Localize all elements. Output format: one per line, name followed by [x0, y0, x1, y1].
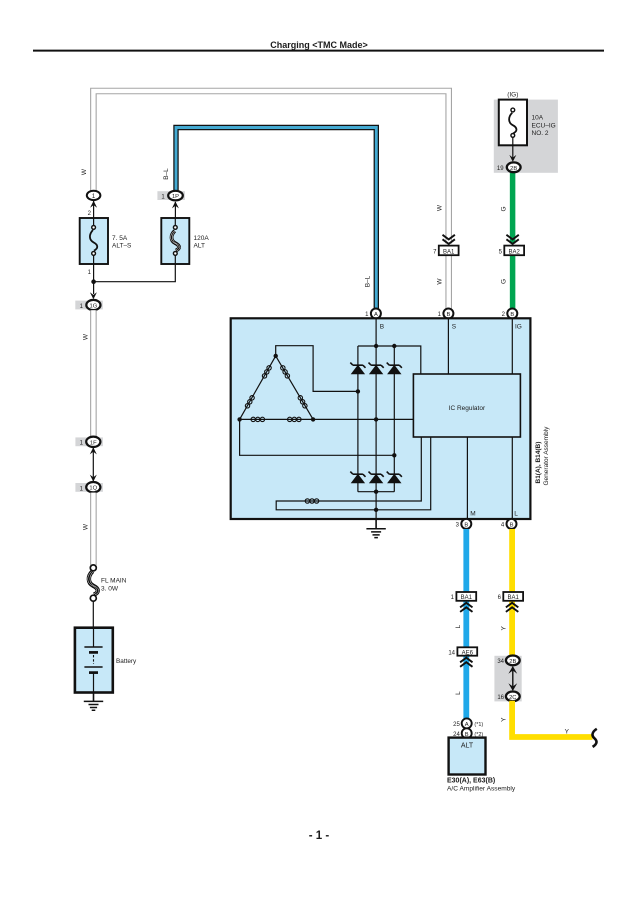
svg-text:W: W [81, 168, 88, 175]
pin circle B (2) at IG [502, 309, 518, 319]
svg-text:BA1: BA1 [508, 595, 520, 601]
wire G from BA2 to pin IG [510, 255, 516, 308]
chevrons into BA1 pin 7 [443, 235, 455, 244]
junction dots rectifier [356, 344, 397, 512]
wire S internal [447, 318, 449, 374]
wire junction to 120A fuse [94, 264, 176, 282]
rectifier left column [357, 346, 359, 492]
rotor field coil circuit [276, 437, 431, 510]
svg-text:B: B [446, 312, 450, 318]
stator coil right side [280, 365, 308, 409]
connector 2B pin 19 [497, 162, 521, 172]
wire between 1F and 1Q with arrows [90, 447, 97, 481]
svg-text:Y: Y [501, 625, 508, 630]
splice panel 2B/2C [494, 656, 521, 702]
svg-text:A: A [374, 312, 378, 318]
svg-text:2B: 2B [509, 659, 516, 665]
diode D5 [369, 472, 384, 483]
battery ground [84, 693, 103, 711]
svg-text:IG: IG [515, 323, 522, 330]
svg-text:ALT: ALT [461, 742, 474, 749]
connector 1F [75, 437, 103, 447]
wire M internal [466, 437, 468, 519]
title rule [33, 50, 604, 52]
svg-text:2B: 2B [510, 166, 517, 172]
connector BA2 pin 5 [499, 246, 524, 256]
svg-text:G: G [500, 279, 507, 284]
wire FL MAIN to battery [92, 601, 94, 647]
pin circle B (3) at M [456, 519, 472, 529]
IC regulator U1 [413, 374, 520, 437]
svg-text:16: 16 [497, 695, 504, 701]
svg-text:IC Regulator: IC Regulator [449, 405, 486, 412]
svg-text:B–L: B–L [163, 168, 170, 180]
delta vertex dots [237, 354, 315, 422]
fusible link FL MAIN 3.0W [88, 565, 99, 601]
chevrons below BA1 pin 6 [506, 603, 518, 612]
wire fuse bottom to junction [93, 264, 95, 294]
connector 1Q [75, 482, 103, 492]
rectifier top rail to IC regulator [358, 346, 421, 374]
svg-text:BA1: BA1 [443, 249, 455, 255]
svg-text:BA1: BA1 [461, 595, 473, 601]
svg-text:(*1): (*1) [474, 722, 483, 728]
chevrons below BA1 pin 1 [460, 603, 472, 612]
svg-text:34: 34 [497, 659, 504, 665]
svg-text:W: W [437, 204, 444, 211]
connector BA1 pin 6 [498, 592, 523, 601]
battery [75, 628, 113, 693]
svg-text:7. 5A: 7. 5A [112, 235, 128, 242]
wire L internal [511, 437, 513, 519]
svg-text:E30(A), E63(B): E30(A), E63(B) [447, 777, 495, 784]
svg-text:B: B [510, 522, 514, 528]
pin circle B (1) at S [438, 309, 454, 319]
connector BA1 pin 7 [433, 246, 458, 256]
svg-text:- 1 -: - 1 - [309, 830, 330, 842]
svg-text:A: A [465, 722, 469, 728]
svg-text:Charging <TMC Made>: Charging <TMC Made> [270, 40, 368, 50]
svg-text:B1(A), B14(B): B1(A), B14(B) [535, 442, 542, 484]
svg-text:(IG): (IG) [507, 91, 518, 98]
connector AE6 pin 14 [448, 647, 477, 656]
svg-text:ALT–S: ALT–S [112, 243, 132, 250]
rectifier right column [393, 346, 395, 492]
svg-text:2C: 2C [509, 695, 516, 701]
svg-text:ALT: ALT [194, 243, 205, 250]
connector 2B pin 34 [497, 656, 519, 666]
stator coil bottom side [251, 417, 301, 421]
svg-text:1F: 1F [90, 440, 97, 446]
svg-text:B: B [510, 312, 514, 318]
svg-text:1G: 1G [90, 304, 98, 310]
generator assembly rotated label [535, 426, 550, 486]
wire between 2B and 2C with arrows [508, 666, 517, 691]
pin circle B (4) at L [501, 519, 517, 529]
rectifier middle column (B / ground) [375, 318, 377, 519]
svg-text:M: M [470, 510, 475, 517]
svg-text:NO. 2: NO. 2 [532, 130, 549, 137]
svg-text:3. 0W: 3. 0W [101, 585, 119, 592]
svg-text:10A: 10A [532, 115, 544, 122]
arrow into 1G [90, 292, 97, 299]
chevrons below AE6 [460, 658, 472, 667]
svg-text:14: 14 [448, 650, 455, 656]
connector 1G [75, 300, 103, 310]
diode D6 [387, 472, 402, 483]
svg-text:1Q: 1Q [89, 486, 97, 492]
svg-text:120A: 120A [194, 235, 210, 242]
svg-text:1P: 1P [172, 194, 179, 200]
fusible link 120A ALT [161, 218, 189, 264]
svg-text:B–L: B–L [364, 275, 371, 287]
wire W from connector 1 over top to BA1 (S circuit) [93, 91, 448, 244]
wire and arrow into connector 1 [90, 201, 97, 218]
svg-text:Y: Y [501, 717, 508, 722]
wire and arrow into 1P [172, 201, 179, 218]
wire delta bottom-left vertex to rectifier right column [240, 419, 395, 455]
wire W from BA1 to pin S [445, 255, 452, 308]
svg-text:W: W [83, 333, 90, 340]
wire W from 1Q to FL MAIN [90, 493, 97, 566]
diode D2 [369, 363, 384, 374]
wire B-L from connector 1P to pin B [176, 128, 376, 309]
A/C amplifier assembly ALT box [449, 738, 486, 775]
connector 1P [157, 191, 185, 201]
svg-text:G: G [500, 206, 507, 211]
svg-text:B: B [380, 323, 384, 330]
GENERATOR ASSEMBLY BOX [231, 318, 531, 519]
wire Y from 2C to page edge [512, 701, 592, 737]
svg-text:L: L [455, 691, 462, 695]
stator delta winding [240, 356, 314, 420]
pin circle A (1) at B [365, 309, 381, 319]
chevrons into BA2 pin 5 [506, 235, 518, 244]
svg-text:25: 25 [453, 722, 460, 728]
generator ground [366, 519, 385, 538]
wire delta top vertex to rectifier left column [276, 346, 358, 392]
wire IG internal [511, 318, 513, 374]
diode D3 [387, 363, 402, 374]
svg-text:ECU–IG: ECU–IG [532, 122, 556, 129]
A/C amplifier pin B (24) [453, 728, 483, 738]
svg-text:Generator Assembly: Generator Assembly [543, 426, 550, 486]
svg-text:BA2: BA2 [509, 249, 521, 255]
gray panel [494, 100, 558, 173]
fuse 10A ECU-IG NO.2 [499, 100, 527, 146]
svg-text:W: W [437, 278, 444, 285]
svg-text:19: 19 [497, 166, 504, 172]
svg-text:L: L [514, 510, 518, 517]
wire Y (yellow) from pin L to 2B [509, 529, 515, 657]
junction dot [91, 279, 96, 284]
rectifier bottom rail [358, 491, 394, 493]
fuse 7.5A ALT-S [80, 218, 108, 264]
diode D4 [350, 472, 365, 483]
wire fuse to 2B with arrow [509, 138, 516, 162]
wire delta bottom rail to IC regulator [313, 418, 413, 420]
svg-text:L: L [455, 624, 462, 628]
wire L (blue) from pin M to A/C amplifier [463, 529, 469, 719]
svg-text:FL MAIN: FL MAIN [101, 578, 127, 585]
connector 1 oval [87, 191, 101, 200]
svg-text:Y: Y [565, 729, 570, 736]
connector BA1 pin 1 [451, 592, 477, 601]
svg-text:W: W [83, 523, 90, 530]
svg-text:S: S [452, 323, 457, 330]
connector 2C pin 16 [497, 692, 519, 702]
wire G from 2B to BA2 [510, 172, 516, 244]
svg-text:B: B [464, 522, 468, 528]
stator coil left side [245, 365, 273, 409]
diode D1 [350, 363, 365, 374]
wire W from 1G to 1F [90, 310, 97, 437]
svg-text:Battery: Battery [116, 658, 137, 665]
svg-text:A/C Amplifier Assembly: A/C Amplifier Assembly [447, 785, 516, 792]
continuation squiggle [593, 729, 597, 747]
svg-text:AE6: AE6 [462, 650, 474, 656]
A/C amplifier pin A (25) [453, 718, 483, 728]
